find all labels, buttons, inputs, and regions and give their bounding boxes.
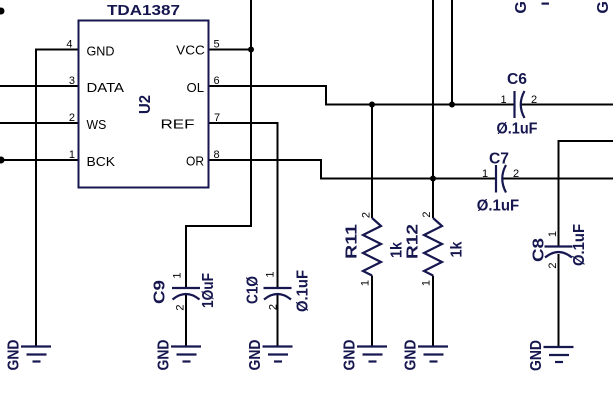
wire VCC net vertical x=251 [186, 0, 251, 287]
capacitor C10 [264, 288, 292, 300]
svg-text:1: 1 [265, 271, 277, 277]
svg-text:WS: WS [87, 117, 107, 132]
wire C10 bottom to ground [277, 295, 279, 347]
svg-text:1k: 1k [449, 241, 466, 257]
svg-text:TDA1387: TDA1387 [107, 2, 180, 19]
wire pin7 REF net [209, 123, 278, 287]
ground symbol under C9 [156, 340, 202, 371]
junction dot OL net / R11 [369, 102, 375, 108]
svg-text:2: 2 [421, 211, 433, 217]
svg-text:8: 8 [214, 149, 220, 161]
svg-text:2: 2 [175, 304, 187, 310]
svg-text:1: 1 [69, 149, 75, 161]
resistor R12 [424, 218, 442, 276]
svg-text:2: 2 [547, 262, 559, 268]
svg-text:6: 6 [214, 75, 220, 87]
svg-text:Ø.1uF: Ø.1uF [295, 270, 312, 312]
svg-text:4: 4 [66, 39, 72, 51]
capacitor C9 [172, 288, 200, 300]
svg-text:GND: GND [247, 340, 264, 371]
svg-text:C8: C8 [531, 238, 548, 262]
svg-text:7: 7 [214, 112, 220, 124]
svg-text:OL: OL [187, 80, 205, 95]
wire OL net right of C6 [521, 104, 613, 106]
svg-text:2: 2 [69, 112, 75, 124]
wire OR net right of C7 [502, 178, 613, 180]
svg-text:GND: GND [528, 340, 545, 371]
svg-text:GND: GND [6, 340, 23, 371]
svg-text:2: 2 [361, 212, 373, 218]
svg-text:GND: GND [156, 340, 173, 371]
svg-text:1: 1 [360, 280, 372, 286]
svg-text:R12: R12 [405, 224, 422, 259]
svg-text:Ø.1uF: Ø.1uF [571, 224, 588, 266]
svg-text:2: 2 [268, 304, 280, 310]
junction dot OL net / x=452 [449, 102, 455, 108]
svg-text:Ø.1uF: Ø.1uF [477, 198, 520, 215]
wire C9 bottom to ground [185, 295, 187, 347]
svg-text:1k: 1k [389, 242, 406, 258]
junction dot left edge BCK [0, 157, 5, 164]
ground symbol under R11 [342, 340, 388, 371]
wire pin4 GND to vertical [36, 50, 79, 347]
ground symbol under C8 [528, 340, 574, 371]
junction dot OR net / R12 [430, 176, 436, 182]
svg-text:U2: U2 [137, 95, 154, 114]
svg-text:GND: GND [342, 340, 359, 371]
wire pin8 OR net [209, 160, 495, 179]
svg-text:C7: C7 [489, 151, 509, 168]
junction dot left edge top [0, 8, 5, 15]
svg-text:C6: C6 [507, 71, 527, 88]
ground symbol under R12 [403, 340, 449, 371]
wire pin1 BCK to left edge [0, 159, 79, 161]
wire R12 bottom stem [432, 276, 434, 347]
svg-text:BCK: BCK [87, 154, 116, 169]
svg-text:5: 5 [214, 39, 220, 51]
svg-text:C9: C9 [152, 280, 169, 304]
capacitor C6 [515, 91, 525, 118]
wire vertical x=433 to R12 [432, 0, 434, 218]
svg-text:OR: OR [186, 154, 204, 169]
svg-text:C1Ø: C1Ø [245, 276, 262, 304]
wire right edge net to C8 [559, 141, 613, 246]
junction dot at pin5/VCC net [248, 47, 254, 53]
svg-text:1: 1 [547, 231, 559, 237]
ground symbol under C10 [247, 340, 293, 371]
svg-text:GND: GND [403, 340, 420, 371]
svg-text:R11: R11 [344, 224, 361, 259]
capacitor C8 [545, 247, 573, 258]
wire vertical x=452 top [451, 0, 453, 105]
wire pin3 DATA to left edge [0, 85, 79, 87]
wire C8 bottom to ground [558, 254, 560, 347]
svg-text:GND: GND [87, 44, 115, 59]
svg-text:REF: REF [161, 117, 195, 132]
ground symbol left (pin4 net) [6, 340, 52, 371]
wire R11 top stem [371, 105, 373, 219]
resistor R11 [363, 218, 381, 276]
wire pin2 WS to left edge [0, 122, 79, 124]
wire pin6 OL net [209, 86, 514, 105]
svg-text:1: 1 [421, 280, 433, 286]
wire R11 bottom stem [371, 276, 373, 347]
svg-text:G: G [595, 1, 612, 13]
svg-text:3: 3 [69, 75, 75, 87]
svg-text:G: G [513, 1, 530, 13]
node dash mark top [542, 3, 550, 5]
op-amp U1 box: IC U2 TDA1387 body [79, 21, 209, 188]
svg-text:1: 1 [500, 94, 506, 106]
svg-text:DATA: DATA [87, 80, 125, 95]
svg-text:1: 1 [482, 168, 488, 180]
svg-text:2: 2 [531, 94, 537, 106]
capacitor C7 [496, 165, 506, 193]
svg-text:2: 2 [513, 168, 519, 180]
svg-text:VCC: VCC [176, 43, 205, 58]
wire pin5 VCC [209, 49, 251, 51]
svg-text:1: 1 [172, 272, 184, 278]
svg-text:1ØuF: 1ØuF [200, 273, 217, 308]
svg-text:Ø.1uF: Ø.1uF [497, 121, 538, 138]
